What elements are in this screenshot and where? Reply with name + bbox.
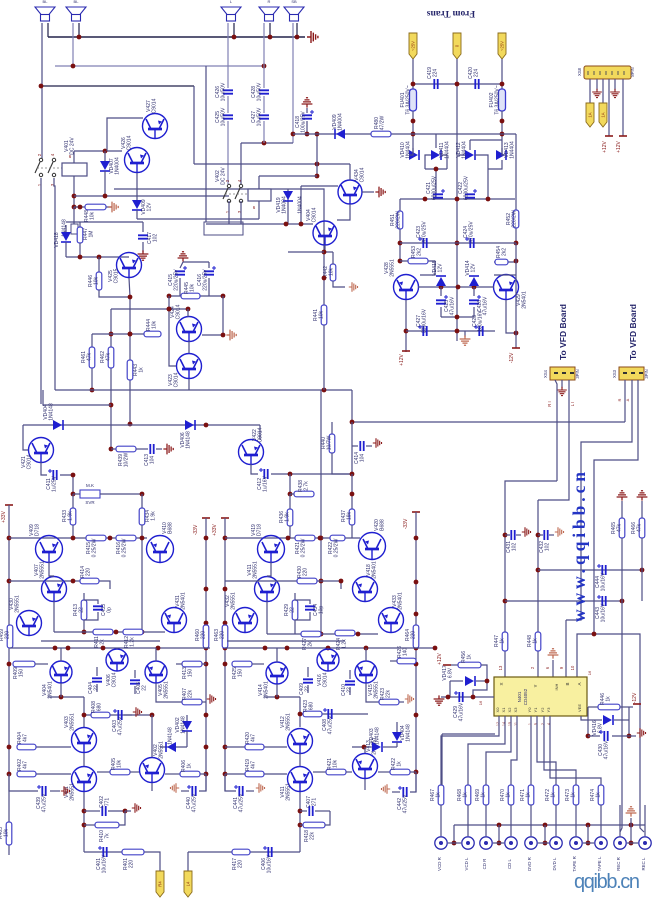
capacitor C427 — [259, 115, 269, 118]
svg-text:220: 220 — [411, 631, 417, 640]
speaker BL1 — [35, 7, 55, 15]
wire feed REC R — [619, 805, 621, 836]
wire pot wiper — [73, 493, 80, 495]
svg-text:6.8V: 6.8V — [448, 667, 454, 678]
wire sw dashed — [37, 167, 78, 169]
capacitor C420 — [475, 79, 478, 89]
rail x225 — [224, 518, 226, 791]
svg-text:A: A — [577, 682, 582, 685]
connector XS8 — [584, 66, 631, 79]
svg-text:2.7k: 2.7k — [304, 481, 310, 491]
svg-text:1.2k: 1.2k — [130, 637, 136, 647]
wire V419 emitter — [267, 562, 271, 576]
wire feed REC L — [644, 805, 646, 836]
resistor R425 150 — [232, 661, 252, 667]
capacitor C441 — [225, 774, 236, 791]
label +33V mid — [221, 517, 229, 519]
svg-text:4k7: 4k7 — [251, 761, 257, 769]
wire y257 — [66, 256, 129, 258]
wire y287 — [418, 286, 494, 288]
svg-text:10k: 10k — [90, 211, 96, 220]
ground XS4 — [561, 380, 563, 388]
relay K402 coil — [248, 189, 271, 201]
svg-text:220: 220 — [220, 631, 226, 640]
svg-text:1N4148: 1N4148 — [49, 403, 55, 421]
svg-text:16: 16 — [587, 670, 592, 675]
wire mirror left — [169, 296, 176, 366]
svg-text:47u/16V: 47u/16V — [459, 702, 465, 721]
capacitor C414 — [352, 445, 358, 447]
wire X3 — [511, 716, 517, 785]
speaker BL4 — [259, 7, 279, 15]
capacitor C440 — [199, 774, 206, 791]
resistor R420 4k7 — [245, 744, 264, 750]
capacitor C439 — [9, 774, 38, 791]
svg-text:47u/25V: 47u/25V — [328, 715, 334, 734]
svg-text:X1: X1 — [501, 707, 506, 713]
svg-text:XS4: XS4 — [543, 369, 548, 378]
wire bus y648 R — [225, 647, 435, 649]
svg-text:1k: 1k — [596, 792, 602, 798]
svg-text:1N4404: 1N4404 — [462, 141, 468, 159]
svg-text:R4: R4 — [158, 881, 163, 887]
wire y309 — [111, 308, 188, 310]
svg-text:+33V: +33V — [1, 510, 7, 522]
wire sw2 bottoms — [228, 201, 230, 224]
diode VD419 — [287, 189, 289, 224]
wire x194 to reg — [206, 223, 280, 225]
svg-text:6800u/25V: 6800u/25V — [464, 175, 470, 200]
diode VD403 — [352, 746, 371, 748]
svg-text:From Trans: From Trans — [427, 8, 476, 18]
svg-text:150: 150 — [19, 669, 25, 678]
speaker BL2 — [66, 7, 86, 15]
svg-text:2N5551: 2N5551 — [374, 681, 380, 699]
svg-text:47u/25V: 47u/25V — [42, 793, 48, 812]
rca jack REC L — [639, 837, 651, 849]
svg-text:1k: 1k — [526, 792, 532, 798]
resistor R462 47k — [108, 347, 114, 368]
svg-text:12V: 12V — [147, 202, 153, 212]
resistor R454 2k2 — [494, 261, 516, 263]
resistor R470 1k — [508, 785, 514, 805]
resistor R411 2k — [93, 629, 113, 635]
svg-text:1k: 1k — [481, 792, 487, 798]
svg-text:C9014: C9014 — [174, 372, 180, 387]
node dot sp2-top — [77, 35, 82, 40]
svg-text:2k2: 2k2 — [417, 248, 423, 256]
resistor R408 680 — [91, 712, 110, 718]
svg-text:2N5401: 2N5401 — [522, 291, 528, 309]
resistor R480 — [371, 131, 391, 137]
resistor R438 2.7k — [289, 474, 291, 494]
svg-text:220u/25V: 220u/25V — [203, 269, 209, 291]
resistor R473 1k — [573, 785, 579, 805]
capacitor C402 — [84, 810, 100, 812]
svg-text:1A: 1A — [601, 112, 606, 117]
ground R407 — [202, 701, 206, 703]
resistor R429 22 — [294, 593, 296, 600]
svg-text:2N5401: 2N5401 — [398, 592, 404, 610]
wire speaker4 pins — [263, 23, 265, 88]
wire y390 — [55, 389, 352, 391]
node dots rail x225 — [223, 536, 228, 541]
svg-text:771: 771 — [105, 798, 111, 807]
resistor R440 — [331, 422, 333, 434]
resistor R424 1.2k — [335, 630, 355, 636]
wire VEE — [581, 716, 588, 720]
wire V422 base drop — [259, 425, 261, 440]
wire pin1 down — [412, 59, 414, 89]
fuse FU402 — [499, 89, 506, 111]
capacitor C404 — [96, 667, 98, 676]
ground R448 — [108, 202, 118, 213]
wire y734 into jacks — [442, 733, 495, 735]
transistor V428 — [394, 275, 419, 300]
svg-text:1N4148: 1N4148 — [186, 431, 192, 449]
wire xs8 p1 — [589, 79, 591, 103]
capacitor C418 — [306, 108, 308, 113]
svg-text:1.9k: 1.9k — [285, 512, 291, 522]
svg-text:C9014: C9014 — [312, 207, 318, 222]
svg-text:22k: 22k — [386, 689, 392, 698]
wire XS3 pin1 — [624, 380, 626, 422]
wire V434 top — [349, 164, 351, 180]
resistor R427 2k — [301, 631, 321, 637]
transistor V433 — [379, 608, 404, 633]
wire rec-r feed — [620, 601, 622, 832]
wire bus y641 — [41, 640, 160, 642]
svg-text:100u/16V: 100u/16V — [478, 310, 484, 332]
svg-text:220u/25V: 220u/25V — [174, 269, 180, 291]
transistor V426 — [125, 148, 150, 173]
diode VD404 — [53, 420, 62, 430]
svg-text:C9014: C9014 — [127, 135, 133, 150]
svg-text:1.9k: 1.9k — [151, 511, 157, 521]
node dot 41,86 — [39, 84, 44, 89]
rca jack TAPE R — [570, 837, 582, 849]
svg-text:BL: BL — [74, 0, 80, 4]
svg-text:C9014: C9014 — [176, 304, 182, 319]
label +12V — [402, 350, 410, 352]
resistor R472 1k — [553, 785, 559, 805]
wire y164 bias — [194, 163, 350, 165]
svg-text:12V: 12V — [438, 263, 444, 273]
svg-text:C9014: C9014 — [323, 672, 329, 687]
wire x442 feed — [441, 734, 443, 785]
wire V409 emitter — [49, 562, 54, 576]
svg-text:220: 220 — [238, 860, 244, 869]
svg-text:22k: 22k — [188, 689, 194, 698]
wire y425 — [23, 424, 260, 426]
wire speaker3 pins — [227, 23, 229, 88]
connector pin R-in — [184, 871, 192, 897]
rail x9 — [8, 505, 10, 791]
capacitor C426b — [469, 300, 479, 303]
wire Y1 — [537, 716, 556, 785]
svg-text:10/2W: 10/2W — [124, 452, 130, 467]
wire stubs outrow — [60, 648, 62, 661]
wire y747 L — [36, 746, 71, 748]
svg-text:19k: 19k — [347, 511, 353, 520]
svg-text:1A: 1A — [588, 112, 593, 117]
wire y151 — [74, 150, 122, 152]
svg-text:+12V: +12V — [437, 652, 443, 664]
resistor R422c 1k — [378, 771, 390, 773]
svg-text:DVD R: DVD R — [527, 857, 532, 871]
svg-text:150: 150 — [188, 669, 194, 678]
wire fuse2 down — [501, 111, 503, 155]
wire v412-v411 — [299, 753, 301, 766]
wire vert x55 — [54, 178, 55, 390]
capacitor C432 — [538, 534, 543, 536]
svg-text:qqibb.cn: qqibb.cn — [574, 871, 640, 893]
svg-text:1N4004: 1N4004 — [338, 113, 344, 131]
wire bus y641 R — [227, 640, 345, 642]
resistor R452 — [513, 210, 519, 228]
wire R471 to jack — [530, 805, 532, 836]
wire v423 bottom — [188, 379, 190, 390]
svg-text:10u/16V: 10u/16V — [601, 603, 607, 622]
capacitor C428 — [259, 90, 269, 93]
wire x538 rail — [537, 500, 539, 677]
capacitor C417 — [142, 222, 144, 232]
svg-text:+12V: +12V — [616, 140, 622, 152]
speaker BL3 — [221, 7, 241, 15]
wire y243 — [400, 242, 516, 244]
wire V427 base path — [107, 118, 143, 151]
ground xs8 p2 — [592, 89, 602, 98]
svg-text:1k: 1k — [139, 367, 145, 373]
svg-text:224: 224 — [474, 69, 480, 78]
wire stub below — [73, 207, 75, 228]
svg-text:2N5401: 2N5401 — [264, 681, 270, 699]
svg-text:0.25/2W: 0.25/2W — [334, 538, 340, 557]
svg-text:Y2: Y2 — [540, 707, 545, 713]
capacitor C412 — [264, 469, 267, 479]
svg-text:1u/25V: 1u/25V — [52, 475, 58, 492]
ground C441 — [256, 783, 265, 793]
resistor R423b 22k — [366, 683, 379, 702]
rca jack REC R — [614, 837, 626, 849]
resistor R434 1.9k — [141, 494, 143, 508]
wire bus y134 — [293, 133, 516, 135]
capacitor C410 — [349, 670, 351, 679]
wire vee ladder right — [628, 707, 630, 736]
svg-text:22: 22 — [94, 685, 100, 691]
svg-text:2N5551: 2N5551 — [231, 592, 237, 610]
capacitor C424 — [470, 238, 473, 248]
ground C440 — [170, 783, 179, 793]
svg-text:1k: 1k — [467, 654, 473, 660]
svg-text:13: 13 — [498, 665, 503, 670]
wire vee ladder left — [587, 707, 589, 736]
ground mirror — [226, 330, 236, 341]
resistor R445 — [181, 293, 200, 299]
svg-text:Y1: Y1 — [533, 707, 538, 713]
svg-text:C9014: C9014 — [360, 167, 366, 182]
svg-text:1k: 1k — [436, 792, 442, 798]
svg-text:47u/16V: 47u/16V — [604, 740, 610, 759]
wire x317 — [316, 134, 318, 176]
capacitor C419 — [434, 79, 437, 89]
svg-text:M.K: M.K — [86, 483, 94, 488]
label 33V midleft — [202, 517, 210, 519]
wire y317 — [441, 316, 474, 318]
wire y697 ic — [441, 696, 494, 698]
wire x142 fb left — [141, 538, 143, 632]
switch S2b — [239, 184, 242, 187]
transistor V411 — [255, 577, 280, 602]
wire diode bridge — [409, 148, 413, 155]
svg-text:CD L: CD L — [507, 858, 512, 869]
wire X1 — [468, 716, 505, 785]
wire y196 — [74, 195, 229, 197]
resistor R463 220 — [222, 625, 228, 648]
wire jack gnd links — [448, 842, 461, 844]
resistor R456 — [451, 664, 458, 666]
rca jack DVD L — [550, 837, 562, 849]
svg-text:16: 16 — [478, 700, 483, 705]
wire V428 emitter — [405, 300, 407, 352]
capacitor C443 — [602, 596, 605, 606]
diode VD404b — [396, 722, 398, 732]
rail x206 — [205, 518, 207, 791]
transistor V403 — [72, 728, 97, 753]
wire V422 emitter — [251, 464, 258, 474]
svg-text:2N5551: 2N5551 — [40, 561, 46, 579]
node dot 264,66 — [262, 64, 267, 69]
resistor R464 220 — [413, 625, 419, 648]
svg-text:TAPE R: TAPE R — [572, 856, 577, 872]
svg-text:10k: 10k — [319, 310, 325, 319]
wire pin2 down — [501, 59, 503, 89]
svg-text:SVR: SVR — [85, 500, 95, 505]
svg-text:6800u/25V: 6800u/25V — [432, 175, 438, 200]
connector XS8 pins — [588, 71, 624, 75]
svg-text:~25V: ~25V — [411, 41, 416, 51]
svg-text:47u/25V: 47u/25V — [239, 793, 245, 812]
ground C403 — [124, 714, 132, 716]
resistor R415 — [86, 535, 106, 541]
capacitor C423 — [423, 238, 426, 248]
wire V404 bottom — [60, 683, 62, 697]
resistor R444 10k — [144, 331, 161, 337]
svg-text:VEE: VEE — [577, 704, 582, 712]
node dot 73,66 — [71, 64, 76, 69]
resistor R407 22k — [156, 683, 182, 702]
svg-text:L4: L4 — [186, 881, 191, 886]
capacitor C444 — [602, 565, 605, 575]
ground jack bus — [630, 818, 632, 825]
resistor R421 — [295, 535, 315, 541]
svg-text:104: 104 — [360, 454, 366, 463]
wire speaker1 pins — [41, 23, 43, 160]
potentiometer SVR — [80, 490, 100, 498]
svg-text:47u/25V: 47u/25V — [403, 794, 409, 813]
wire speaker5 pins — [292, 23, 294, 143]
transistor V404 — [50, 661, 72, 683]
transistor V422 — [239, 440, 264, 465]
transistor V413 — [353, 754, 378, 779]
wire y334 — [92, 333, 161, 335]
diode VD418 — [65, 225, 67, 232]
transistor V411b — [288, 767, 313, 792]
svg-text:1N4404: 1N4404 — [406, 141, 412, 159]
svg-text:L I: L I — [570, 402, 575, 407]
svg-text:220: 220 — [201, 631, 207, 640]
svg-text:2k: 2k — [100, 639, 106, 645]
svg-text:-33V: -33V — [193, 524, 199, 535]
wire long y422 — [352, 390, 625, 422]
svg-text:10k: 10k — [117, 759, 123, 768]
wire v434 gnd — [362, 191, 374, 193]
resistor R404 4k7 — [17, 744, 36, 750]
node dots rail x416 — [414, 536, 419, 541]
wire XS4 pinA — [555, 380, 557, 481]
wire diode bridge3 — [458, 154, 465, 156]
svg-text:2N5551: 2N5551 — [253, 561, 259, 579]
ground C402 — [125, 810, 131, 812]
svg-text:To VFD Board: To VFD Board — [628, 304, 638, 360]
wire Y0 — [530, 716, 532, 785]
svg-text:220: 220 — [86, 568, 92, 577]
svg-text:Y: Y — [533, 684, 538, 687]
resistor R459 220 — [7, 625, 13, 648]
transistor V410 — [147, 536, 174, 563]
svg-text:www.qqibb.cn: www.qqibb.cn — [569, 472, 589, 622]
svg-text:1N4148: 1N4148 — [168, 727, 174, 745]
resistor R409 150 — [13, 661, 35, 667]
svg-text:1.2k: 1.2k — [342, 639, 348, 649]
resistor R474 1k — [598, 785, 604, 805]
node dots rail x206 — [204, 536, 209, 541]
svg-text:22k: 22k — [310, 831, 316, 840]
resistor R414 — [80, 578, 99, 584]
ground C415 — [178, 252, 189, 262]
capacitor C405 — [134, 670, 136, 678]
transistor V415 — [355, 661, 377, 683]
svg-text:47k: 47k — [617, 523, 623, 532]
connector pin xs8b — [599, 103, 607, 127]
resistor R419 4k7 — [245, 771, 264, 777]
wire xs8 p6 — [622, 79, 624, 136]
svg-text:1k: 1k — [397, 761, 403, 767]
wire v424 base — [187, 309, 189, 317]
svg-text:1k: 1k — [551, 792, 557, 798]
wire y581 L — [9, 581, 110, 589]
svg-text:4k7: 4k7 — [23, 734, 29, 742]
resistor R471 1k — [528, 785, 534, 805]
wire y697 — [48, 696, 84, 698]
svg-text:0p: 0p — [107, 607, 113, 613]
connector pin ~25V a — [409, 33, 417, 59]
transistor V423m — [177, 354, 202, 379]
svg-text:10k: 10k — [152, 320, 158, 329]
wire x321 fb right — [320, 390, 322, 634]
svg-text:2N5551: 2N5551 — [70, 713, 76, 731]
resistor R416 — [116, 535, 136, 541]
svg-text:220/2W: 220/2W — [396, 211, 402, 229]
wire y176 coil — [259, 175, 317, 177]
transistor V425 — [117, 253, 142, 278]
svg-text:12V: 12V — [471, 263, 477, 273]
wire X0 — [441, 716, 499, 785]
resistor R433 1.9k — [72, 494, 74, 508]
resistor R466 47k — [641, 501, 643, 518]
transistor V404r — [313, 221, 337, 245]
wire XS4 pinB — [538, 380, 569, 500]
